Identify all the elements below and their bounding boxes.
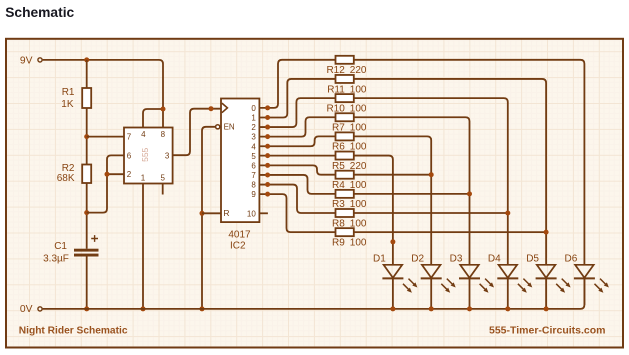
svg-text:D4: D4 <box>488 253 501 264</box>
svg-text:3.3µF: 3.3µF <box>43 253 69 264</box>
svg-text:10: 10 <box>247 209 256 218</box>
svg-text:2: 2 <box>127 170 132 179</box>
svg-text:1: 1 <box>141 174 146 183</box>
svg-text:R: R <box>223 208 229 218</box>
svg-text:4017: 4017 <box>228 229 251 240</box>
svg-text:555-Timer-Circuits.com: 555-Timer-Circuits.com <box>489 325 606 337</box>
svg-text:7: 7 <box>251 171 256 180</box>
svg-text:1: 1 <box>251 114 256 123</box>
svg-text:5: 5 <box>251 152 256 161</box>
svg-text:R9: R9 <box>332 237 345 248</box>
svg-text:8: 8 <box>161 130 166 139</box>
svg-text:EN: EN <box>224 122 235 131</box>
svg-text:R1: R1 <box>62 87 75 98</box>
svg-text:3: 3 <box>251 133 256 142</box>
svg-text:D1: D1 <box>373 253 386 264</box>
svg-text:9V: 9V <box>20 55 33 66</box>
svg-text:0: 0 <box>251 104 256 113</box>
svg-text:4: 4 <box>141 130 146 139</box>
svg-text:9: 9 <box>251 190 256 199</box>
svg-text:8: 8 <box>251 181 256 190</box>
svg-text:100: 100 <box>350 237 367 248</box>
svg-text:7: 7 <box>127 133 132 142</box>
svg-text:555: 555 <box>140 147 150 161</box>
svg-text:0V: 0V <box>20 304 33 315</box>
svg-text:IC2: IC2 <box>230 241 246 252</box>
svg-text:C1: C1 <box>54 241 67 252</box>
svg-text:1K: 1K <box>61 99 74 110</box>
svg-text:D2: D2 <box>411 253 424 264</box>
svg-text:6: 6 <box>127 151 132 160</box>
svg-text:2: 2 <box>251 123 256 132</box>
svg-text:68K: 68K <box>57 173 75 184</box>
svg-text:D5: D5 <box>526 253 539 264</box>
svg-text:Night Rider Schematic: Night Rider Schematic <box>19 326 128 337</box>
svg-text:5: 5 <box>160 174 165 183</box>
svg-text:Schematic: Schematic <box>5 5 74 20</box>
svg-text:3: 3 <box>165 151 170 160</box>
svg-text:4: 4 <box>251 142 256 151</box>
svg-text:D6: D6 <box>565 253 578 264</box>
svg-text:D3: D3 <box>450 253 463 264</box>
svg-text:6: 6 <box>251 161 256 170</box>
